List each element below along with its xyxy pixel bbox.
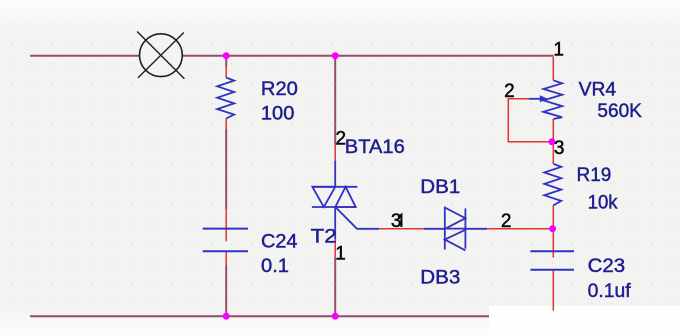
svg-text:T2: T2 (311, 226, 337, 247)
svg-text:DB3: DB3 (420, 267, 460, 288)
svg-text:560K: 560K (597, 101, 642, 122)
svg-text:R19: R19 (577, 165, 612, 186)
svg-text:2: 2 (504, 81, 515, 102)
svg-text:1: 1 (335, 244, 346, 265)
svg-text:1: 1 (553, 39, 564, 60)
svg-text:0.1uf: 0.1uf (588, 281, 632, 302)
svg-text:10k: 10k (588, 192, 618, 213)
svg-text:100: 100 (261, 104, 295, 125)
svg-text:VR4: VR4 (579, 79, 617, 100)
svg-text:R20: R20 (261, 79, 298, 100)
svg-text:BTA16: BTA16 (345, 137, 405, 158)
svg-text:C24: C24 (261, 231, 298, 252)
svg-text:2: 2 (501, 211, 512, 232)
svg-text:3: 3 (554, 138, 565, 159)
svg-text:3: 3 (391, 211, 402, 232)
svg-text:C23: C23 (588, 256, 626, 277)
svg-text:2: 2 (336, 128, 347, 149)
svg-text:DB1: DB1 (420, 177, 460, 198)
svg-text:0.1: 0.1 (261, 256, 289, 277)
